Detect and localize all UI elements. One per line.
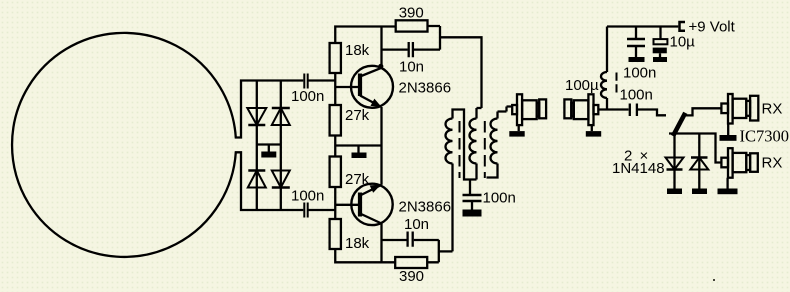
inductor core: [616, 73, 618, 97]
transistor Q2 2N3866: [351, 184, 392, 225]
ground: [586, 131, 601, 137]
svg-text:100µ: 100µ: [565, 77, 599, 94]
svg-text:100n: 100n: [291, 88, 324, 105]
svg-text:390: 390: [399, 5, 424, 22]
switch S1 lever: [673, 113, 685, 136]
svg-text:2N3866: 2N3866: [399, 80, 452, 97]
ground: [720, 124, 737, 141]
capacitor C1 100n: [304, 74, 336, 89]
connector J4 RX plug: [721, 148, 757, 178]
transformer T1 winding W2: [469, 108, 481, 180]
wire R2 to mid rail: [334, 136, 336, 157]
resistor R4 18k: [330, 219, 341, 249]
svg-text:100n: 100n: [291, 188, 324, 205]
diode D1: [247, 108, 266, 125]
loop antenna L1: [12, 33, 236, 257]
wire collector Q2 down: [380, 224, 382, 263]
node rail right branch: [280, 81, 282, 211]
diode D4: [272, 171, 290, 188]
svg-text:1N4148: 1N4148: [612, 160, 665, 177]
wire collector Q1 up: [380, 27, 382, 68]
ground: [463, 210, 482, 217]
transformer T1 winding W3 secondary: [487, 107, 513, 178]
svg-text:18k: 18k: [345, 42, 370, 59]
wire loop top end to diode network: [235, 81, 304, 138]
ground: [629, 57, 645, 62]
connector J3 RX plug: [721, 94, 758, 124]
speck: [713, 279, 715, 281]
diode D2: [272, 108, 290, 125]
svg-text:IC7300: IC7300: [740, 127, 790, 146]
wire emitter Q2 up: [380, 146, 382, 185]
diode D3: [248, 171, 266, 188]
wire diode line to J4: [669, 134, 721, 163]
wire loop bottom end to diode network: [235, 152, 304, 210]
wire to transformer primary top: [440, 37, 482, 108]
svg-text:10n: 10n: [399, 59, 424, 76]
capacitor C7 10u electrolytic: [653, 27, 668, 58]
ground: [667, 189, 682, 195]
capacitor C2 100n: [304, 203, 336, 218]
capacitor C6 100n: [627, 27, 645, 58]
transistor Q1 2N3866: [351, 66, 393, 108]
resistor R6 390: [395, 257, 427, 268]
wire R3 to R4: [334, 187, 336, 219]
node rail left branch: [256, 81, 258, 211]
capacitor C4 10n: [382, 232, 439, 247]
node collector Q1: [378, 64, 383, 69]
svg-text:RX: RX: [762, 101, 783, 118]
svg-text:27k: 27k: [345, 171, 370, 188]
resistor R5 390: [396, 20, 428, 31]
wire to transformer primary bottom: [439, 250, 453, 252]
wire emitter Q1 down: [380, 107, 382, 146]
terminal +9 Volt: [678, 21, 685, 32]
capacitor C5 100n: [463, 180, 482, 210]
wire +9V rail: [607, 25, 678, 27]
inductor L2 100u choke: [601, 27, 607, 110]
wire J2 to C8: [598, 108, 628, 110]
svg-text:100n: 100n: [623, 65, 656, 82]
svg-text:390: 390: [399, 268, 424, 285]
ground: [692, 189, 707, 195]
resistor R2 27k: [330, 105, 341, 136]
svg-text:+9 Volt: +9 Volt: [689, 19, 736, 36]
wire base Q1: [335, 86, 358, 88]
ground: [653, 57, 667, 62]
diode D6 1N4148: [690, 134, 708, 189]
wire R6 right: [427, 240, 439, 262]
wire mid rail: [335, 144, 382, 146]
ground: [261, 145, 276, 158]
svg-text:100n: 100n: [620, 87, 653, 104]
ground: [509, 131, 524, 137]
svg-text:100n: 100n: [483, 190, 516, 207]
connector J1 BNC plug: [512, 94, 546, 131]
ground: [352, 146, 367, 159]
resistor R1 18k: [330, 43, 341, 73]
svg-text:10µ: 10µ: [670, 34, 696, 51]
resistor R3 27k: [330, 157, 341, 188]
wire mid diode rail: [257, 143, 281, 145]
svg-text:18k: 18k: [345, 235, 370, 252]
transformer core: [459, 121, 461, 178]
wire R5 right: [428, 26, 441, 50]
svg-text:10n: 10n: [404, 216, 429, 233]
transformer T1 winding W1: [445, 110, 476, 252]
wire switch to J3: [685, 108, 721, 115]
diode D5 1N4148: [666, 134, 684, 189]
connector J2 BNC plug: [564, 94, 598, 131]
ground: [718, 178, 738, 195]
svg-text:2N3866: 2N3866: [399, 199, 452, 216]
transformer core: [484, 121, 486, 178]
wire between R1 R2: [334, 73, 336, 105]
wire top rail left: [335, 27, 395, 44]
wire base Q2: [335, 204, 358, 206]
capacitor C8 100n: [630, 104, 666, 117]
svg-text:27k: 27k: [345, 107, 370, 124]
wire bottom rail left: [335, 249, 395, 262]
capacitor C3 10n: [382, 42, 441, 57]
svg-text:RX: RX: [762, 155, 783, 172]
